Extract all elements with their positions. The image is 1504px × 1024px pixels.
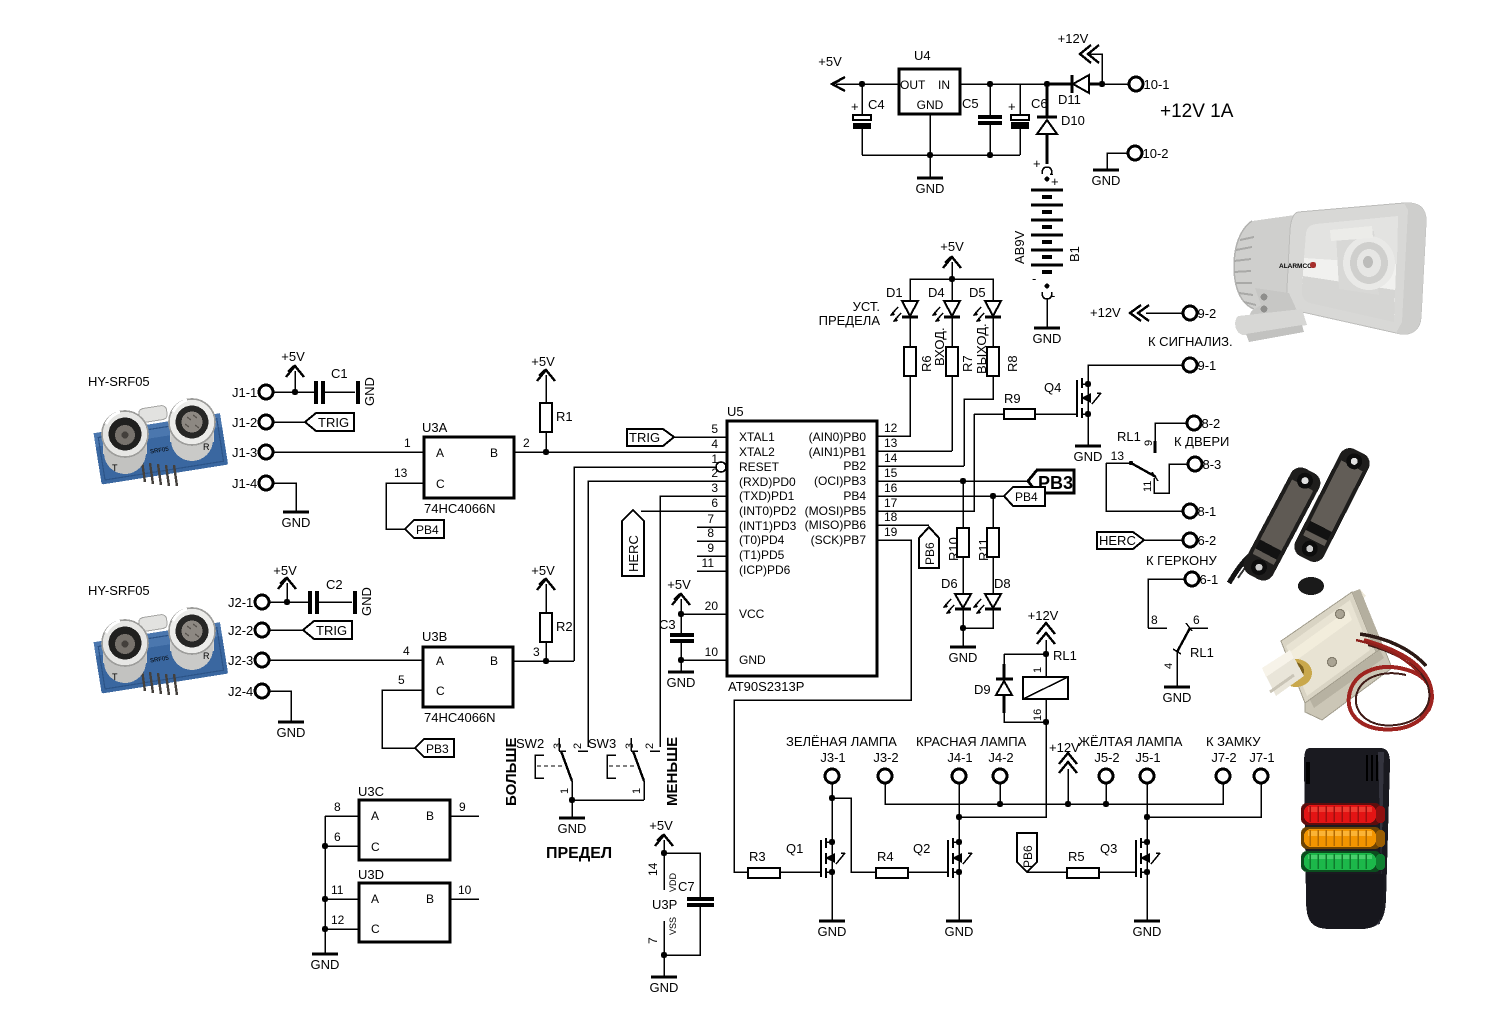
svg-text:(INT1)PD3: (INT1)PD3 bbox=[739, 519, 797, 533]
svg-text:2: 2 bbox=[523, 436, 530, 450]
svg-text:12: 12 bbox=[331, 913, 345, 927]
svg-text:R10: R10 bbox=[946, 537, 961, 561]
svg-text:-: - bbox=[1051, 288, 1055, 303]
svg-text:U3B: U3B bbox=[422, 629, 447, 644]
svg-text:R8: R8 bbox=[1005, 355, 1020, 372]
connector J1-3 bbox=[232, 445, 273, 460]
TRIG tag (J2-2) bbox=[303, 621, 352, 639]
+12V 1A label bbox=[1160, 101, 1234, 122]
label ЗЕЛЁНАЯ ЛАМПА bbox=[786, 734, 897, 749]
junction bbox=[1044, 81, 1050, 87]
diode D11 bbox=[1047, 75, 1102, 107]
svg-text:GND: GND bbox=[558, 821, 587, 836]
svg-text:(TXD)PD1: (TXD)PD1 bbox=[739, 489, 795, 503]
svg-text:RESET: RESET bbox=[739, 460, 780, 474]
svg-text:+5V: +5V bbox=[281, 349, 305, 364]
svg-text:GND: GND bbox=[916, 181, 945, 196]
svg-text:J5-2: J5-2 bbox=[1094, 750, 1119, 765]
svg-text:GND: GND bbox=[650, 980, 679, 995]
label К ЗАМКУ bbox=[1206, 734, 1261, 749]
analog switch U3B bbox=[422, 629, 513, 725]
svg-text:C7: C7 bbox=[678, 879, 695, 894]
HERC tag (U5 INT0) bbox=[622, 510, 727, 576]
svg-text:20: 20 bbox=[705, 599, 719, 613]
connector J2-3 bbox=[228, 653, 269, 668]
connector J3-1 bbox=[820, 750, 845, 783]
svg-text:AT90S2313P: AT90S2313P bbox=[728, 679, 804, 694]
svg-text:74HC4066N: 74HC4066N bbox=[424, 501, 496, 516]
svg-text:C6: C6 bbox=[1031, 96, 1048, 111]
svg-text:16: 16 bbox=[1032, 709, 1044, 721]
svg-text:7: 7 bbox=[707, 512, 714, 526]
svg-text:GND: GND bbox=[1074, 449, 1103, 464]
resistor R11 bbox=[976, 496, 999, 594]
resistor R10 bbox=[946, 481, 969, 594]
wire RL1 pin16 to J4-1 net bbox=[959, 722, 1046, 817]
svg-text:2: 2 bbox=[644, 743, 656, 749]
svg-text:+12V: +12V bbox=[1049, 740, 1080, 755]
ultrasonic sensor photo HY-SRF05 (top) bbox=[88, 374, 228, 486]
svg-text:ЗЕЛЁНАЯ ЛАМПА: ЗЕЛЁНАЯ ЛАМПА bbox=[786, 734, 897, 749]
+12V power arrow (RL1 coil) bbox=[1028, 608, 1077, 677]
label К ГЕРКОНУ bbox=[1146, 553, 1217, 568]
svg-text:B1: B1 bbox=[1067, 246, 1082, 262]
PB3 tag (U3B) bbox=[415, 739, 454, 757]
svg-text:+12V: +12V bbox=[1058, 31, 1089, 46]
connector J5-1 bbox=[1135, 750, 1160, 783]
svg-text:A: A bbox=[371, 892, 379, 906]
svg-text:1: 1 bbox=[404, 436, 411, 450]
svg-text:(AIN0)PB0: (AIN0)PB0 bbox=[809, 430, 867, 444]
pin stubs U5 left bbox=[697, 527, 727, 571]
svg-text:C: C bbox=[436, 477, 445, 491]
wire U3C pin8 bbox=[325, 800, 359, 816]
svg-text:1: 1 bbox=[559, 788, 571, 794]
label ВХОД. (rotated) bbox=[932, 327, 947, 366]
ground (U3C/U3D) bbox=[311, 954, 340, 972]
svg-text:GND: GND bbox=[277, 725, 306, 740]
label ВЫХОД. (rotated) bbox=[974, 323, 989, 374]
svg-text:J1-3: J1-3 bbox=[232, 445, 257, 460]
svg-text:D1: D1 bbox=[886, 285, 903, 300]
svg-text:GND: GND bbox=[311, 957, 340, 972]
wire pin16 / PB4 net bbox=[877, 493, 1004, 499]
svg-text:14: 14 bbox=[646, 862, 660, 876]
wire U3B pin5 bbox=[382, 673, 423, 748]
svg-text:+: + bbox=[1008, 99, 1016, 114]
svg-text:PB6: PB6 bbox=[923, 542, 937, 565]
svg-text:+12V: +12V bbox=[1090, 305, 1121, 320]
wire VCC pin20 bbox=[678, 611, 727, 617]
svg-text:AB9V: AB9V bbox=[1012, 230, 1027, 264]
svg-text:J2-2: J2-2 bbox=[228, 623, 253, 638]
svg-text:ПРЕДЕЛА: ПРЕДЕЛА bbox=[819, 313, 881, 328]
svg-text:PB6: PB6 bbox=[1021, 845, 1035, 868]
capacitor C2 bbox=[308, 577, 352, 614]
svg-text:+: + bbox=[1033, 156, 1041, 171]
+5V power arrow (R1) bbox=[531, 354, 555, 403]
wire U3C pin9 bbox=[450, 800, 479, 816]
wire U3A pin13 bbox=[386, 466, 424, 529]
LED D4 bbox=[928, 285, 960, 347]
capacitor C7 bbox=[664, 853, 714, 955]
svg-text:J5-1: J5-1 bbox=[1135, 750, 1160, 765]
svg-text:8: 8 bbox=[334, 800, 341, 814]
svg-text:6: 6 bbox=[334, 830, 341, 844]
wire U4 OUT bbox=[862, 83, 899, 85]
voltage regulator U4 bbox=[899, 48, 960, 114]
svg-text:13: 13 bbox=[1111, 449, 1125, 463]
capacitor C5 bbox=[962, 81, 1002, 158]
svg-text:+5V: +5V bbox=[531, 563, 555, 578]
svg-text:D11: D11 bbox=[1058, 92, 1081, 107]
svg-text:К ЗАМКУ: К ЗАМКУ bbox=[1206, 734, 1261, 749]
switch SW2 bbox=[516, 736, 588, 800]
resistor R8 bbox=[964, 347, 1020, 466]
HERC tag (right) bbox=[1097, 532, 1183, 549]
svg-text:6: 6 bbox=[711, 496, 718, 510]
svg-text:XTAL1: XTAL1 bbox=[739, 430, 775, 444]
svg-text:U3P: U3P bbox=[652, 897, 677, 912]
svg-text:10: 10 bbox=[705, 645, 719, 659]
wire to J10-1 bbox=[1102, 83, 1129, 85]
svg-text:+: + bbox=[1051, 174, 1059, 189]
resistor R5 bbox=[1067, 849, 1136, 878]
svg-text:PB4: PB4 bbox=[1015, 490, 1038, 504]
connector J2-4 bbox=[228, 684, 291, 722]
wire SW2/SW3 common bbox=[569, 797, 644, 818]
photo: magnetic door sensors bbox=[1229, 444, 1373, 595]
wire pin14 to R8 bbox=[877, 465, 964, 467]
PB6 tag (pin18, vertical) bbox=[919, 527, 939, 568]
wire LED supply rail bbox=[910, 279, 993, 301]
transistor Q3 bbox=[1100, 838, 1160, 921]
wire pin15 / PB3 net bbox=[877, 478, 1028, 484]
connector J6-1 bbox=[1148, 572, 1218, 628]
svg-text:PB2: PB2 bbox=[843, 459, 866, 473]
LED D1 bbox=[886, 285, 918, 347]
label КРАСНАЯ ЛАМПА bbox=[916, 734, 1027, 749]
resistor R1 bbox=[540, 403, 573, 452]
diode D10 bbox=[1037, 84, 1085, 152]
svg-text:J3-2: J3-2 bbox=[873, 750, 898, 765]
svg-text:(RXD)PD0: (RXD)PD0 bbox=[739, 475, 796, 489]
wire J2-3 to U3B pin4 bbox=[269, 644, 423, 660]
ground (U3P) bbox=[650, 955, 679, 995]
svg-text:5: 5 bbox=[711, 422, 718, 436]
svg-text:GND: GND bbox=[282, 515, 311, 530]
svg-text:J1-2: J1-2 bbox=[232, 415, 257, 430]
svg-text:R: R bbox=[203, 442, 210, 452]
resistor R6 bbox=[904, 347, 934, 436]
svg-text:C3: C3 bbox=[659, 617, 676, 632]
svg-text:+5V: +5V bbox=[667, 577, 691, 592]
photo: solenoid lock bbox=[1262, 589, 1432, 729]
wire RXD (pin2) to SW2 bbox=[588, 481, 727, 747]
connector J9-1 bbox=[1183, 358, 1216, 373]
svg-text:GND: GND bbox=[949, 650, 978, 665]
+5V power arrow (U3P) bbox=[649, 818, 673, 890]
svg-text:19: 19 bbox=[884, 525, 898, 539]
wire U3D pin12 bbox=[322, 913, 359, 932]
svg-text:R7: R7 bbox=[960, 355, 975, 372]
junction bbox=[1099, 81, 1105, 87]
LED D5 bbox=[969, 285, 1001, 347]
+12V power arrow (top) bbox=[1058, 31, 1102, 84]
ground (Q4) bbox=[1074, 446, 1103, 464]
connector J3-2 bbox=[873, 750, 898, 783]
wire pin12 to R6 bbox=[877, 376, 910, 436]
wire U3A output pin2 bbox=[514, 436, 727, 455]
svg-text:12: 12 bbox=[884, 421, 898, 435]
ground (Q1) bbox=[818, 921, 847, 939]
svg-text:R: R bbox=[203, 651, 210, 661]
ground (J1-4) bbox=[282, 512, 311, 530]
svg-text:C: C bbox=[371, 840, 380, 854]
svg-text:J2-3: J2-3 bbox=[228, 653, 253, 668]
svg-text:18: 18 bbox=[884, 510, 898, 524]
svg-text:OUT: OUT bbox=[900, 78, 926, 92]
svg-text:GND: GND bbox=[739, 653, 766, 667]
svg-text:(OCI)PB3: (OCI)PB3 bbox=[814, 474, 866, 488]
wire TXD (pin3) to SW3 bbox=[660, 496, 727, 747]
wire U4 IN bbox=[960, 83, 1047, 85]
svg-text:D9: D9 bbox=[974, 682, 991, 697]
+5V power arrow (J1-1) bbox=[281, 349, 305, 395]
svg-text:(AIN1)PB1: (AIN1)PB1 bbox=[809, 445, 867, 459]
svg-text:D5: D5 bbox=[969, 285, 986, 300]
svg-text:3: 3 bbox=[552, 743, 564, 749]
svg-text:4: 4 bbox=[403, 644, 410, 658]
ground (SW2/SW3) bbox=[558, 818, 587, 836]
+12V lamp rail wire bbox=[885, 783, 1223, 807]
ground (Q2) bbox=[945, 921, 974, 939]
svg-text:B: B bbox=[426, 892, 434, 906]
svg-text:17: 17 bbox=[884, 496, 898, 510]
ground (C1, rotated) bbox=[356, 377, 377, 406]
label МЕНЬШЕ (vertical) bbox=[664, 737, 681, 806]
svg-text:IN: IN bbox=[938, 78, 950, 92]
junction bbox=[927, 152, 933, 158]
wire U3D pin10 bbox=[450, 883, 479, 899]
svg-text:Q3: Q3 bbox=[1100, 841, 1117, 856]
svg-text:SW2: SW2 bbox=[516, 736, 544, 751]
svg-text:14: 14 bbox=[884, 451, 898, 465]
wire U3C/U3D ground bus bbox=[324, 816, 326, 954]
svg-text:D4: D4 bbox=[928, 285, 945, 300]
ground (U4) bbox=[916, 178, 945, 196]
resistor R7 bbox=[946, 347, 975, 451]
svg-text:7: 7 bbox=[646, 937, 660, 944]
svg-text:U3A: U3A bbox=[422, 420, 448, 435]
wire pin19 route to R3 bbox=[734, 540, 911, 872]
svg-text:B: B bbox=[490, 446, 498, 460]
svg-text:УСТ.: УСТ. bbox=[853, 299, 880, 314]
resistor R3 bbox=[748, 849, 821, 878]
svg-text:GND: GND bbox=[1163, 690, 1192, 705]
svg-text:+12V: +12V bbox=[1028, 608, 1059, 623]
svg-text:C: C bbox=[371, 922, 380, 936]
svg-text:U5: U5 bbox=[727, 404, 744, 419]
battery B1 bbox=[1012, 152, 1082, 328]
svg-text:-: - bbox=[1032, 271, 1036, 286]
svg-text:PB3: PB3 bbox=[426, 742, 449, 756]
+12V power arrow (lamp rail) bbox=[1049, 740, 1080, 804]
svg-text:(SCK)PB7: (SCK)PB7 bbox=[811, 533, 867, 547]
svg-text:9: 9 bbox=[707, 541, 714, 555]
connector J5-2 bbox=[1094, 750, 1119, 783]
svg-text:T: T bbox=[112, 463, 118, 473]
svg-text:ВХОД.: ВХОД. bbox=[932, 327, 947, 366]
svg-text:1: 1 bbox=[1032, 667, 1044, 673]
svg-text:PB4: PB4 bbox=[843, 489, 866, 503]
ground rail wire bbox=[862, 154, 1020, 156]
connector J7-1 bbox=[1249, 750, 1274, 783]
wire J1-3 to U3A pin1 bbox=[273, 436, 424, 452]
svg-text:J4-1: J4-1 bbox=[947, 750, 972, 765]
svg-text:+12V 1A: +12V 1A bbox=[1160, 101, 1234, 122]
svg-text:11: 11 bbox=[702, 556, 715, 570]
svg-text:RL1: RL1 bbox=[1117, 429, 1141, 444]
svg-text:ЖЁЛТАЯ ЛАМПА: ЖЁЛТАЯ ЛАМПА bbox=[1078, 734, 1183, 749]
svg-text:J7-2: J7-2 bbox=[1211, 750, 1236, 765]
capacitor C6 bbox=[1008, 84, 1048, 155]
PB4 tag bbox=[1004, 487, 1045, 506]
svg-text:D8: D8 bbox=[994, 576, 1011, 591]
connector J1-1 bbox=[232, 385, 316, 400]
relay contact RL1 (door) bbox=[1106, 429, 1188, 493]
svg-text:D6: D6 bbox=[941, 576, 958, 591]
svg-text:GND: GND bbox=[1092, 173, 1121, 188]
svg-text:11: 11 bbox=[1142, 481, 1154, 492]
wire J3-1 to Q1 drain bbox=[829, 783, 877, 872]
svg-text:VDD: VDD bbox=[668, 872, 678, 892]
svg-text:B: B bbox=[490, 654, 498, 668]
svg-text:МЕНЬШЕ: МЕНЬШЕ bbox=[664, 737, 681, 806]
svg-text:3: 3 bbox=[533, 645, 540, 659]
svg-text:+5V: +5V bbox=[649, 818, 673, 833]
svg-text:J3-1: J3-1 bbox=[820, 750, 845, 765]
connector J10-1 bbox=[1129, 77, 1170, 92]
wire RESET (pin1) bbox=[574, 467, 716, 661]
svg-text:R2: R2 bbox=[556, 619, 573, 634]
wire J4-1 to Q2 drain / RL1 bbox=[956, 783, 962, 842]
ground (C2, rotated) bbox=[353, 587, 374, 616]
wire Q4 drain to J9-1 bbox=[1088, 365, 1183, 384]
connector J7-2 bbox=[1211, 750, 1236, 783]
svg-text:PB4: PB4 bbox=[416, 523, 439, 537]
PB3 tag (big) bbox=[1028, 470, 1074, 493]
resistor R4 bbox=[851, 849, 948, 878]
svg-text:Q1: Q1 bbox=[786, 841, 803, 856]
svg-text:J7-1: J7-1 bbox=[1249, 750, 1274, 765]
svg-text:VCC: VCC bbox=[739, 607, 765, 621]
svg-text:GND: GND bbox=[818, 924, 847, 939]
svg-text:J2-1: J2-1 bbox=[228, 595, 253, 610]
svg-text:GND: GND bbox=[359, 587, 374, 616]
svg-text:11: 11 bbox=[331, 883, 344, 897]
svg-text:9: 9 bbox=[1143, 440, 1155, 446]
svg-text:RL1: RL1 bbox=[1053, 648, 1077, 663]
wire pin13 to R7 bbox=[877, 450, 952, 452]
wire Q4 source to ground bbox=[1087, 414, 1089, 446]
connector J2-1 bbox=[228, 595, 309, 610]
svg-text:ALARMCO: ALARMCO bbox=[1279, 263, 1312, 270]
svg-text:Q2: Q2 bbox=[913, 841, 930, 856]
svg-text:GND: GND bbox=[1133, 924, 1162, 939]
photo: LED signal tower bbox=[1301, 748, 1390, 929]
connector J4-1 bbox=[947, 750, 972, 783]
svg-text:C2: C2 bbox=[326, 577, 343, 592]
svg-text:+5V: +5V bbox=[818, 54, 842, 69]
connector J8-1 bbox=[1183, 504, 1216, 519]
svg-text:6: 6 bbox=[1193, 613, 1200, 627]
wire U3C pin6 bbox=[322, 830, 359, 849]
switch SW3 bbox=[588, 736, 660, 800]
svg-text:J1-4: J1-4 bbox=[232, 476, 257, 491]
capacitor C4 bbox=[851, 84, 885, 155]
+5V power arrow (C3) bbox=[667, 577, 691, 614]
transistor Q1 bbox=[786, 838, 845, 921]
svg-text:HERC: HERC bbox=[1099, 533, 1136, 548]
ground (C3) bbox=[667, 672, 696, 690]
svg-text:TRIG: TRIG bbox=[629, 430, 660, 445]
svg-text:Q4: Q4 bbox=[1044, 380, 1061, 395]
svg-text:R11: R11 bbox=[976, 538, 991, 561]
svg-text:5: 5 bbox=[398, 673, 405, 687]
label К СИГНАЛИЗ. bbox=[1148, 334, 1233, 349]
svg-text:R9: R9 bbox=[1004, 391, 1021, 406]
wire RL1 pin13 to J8-1 bbox=[1106, 463, 1183, 511]
transistor Q4 bbox=[1044, 378, 1101, 418]
svg-text:4: 4 bbox=[711, 437, 718, 451]
svg-text:T: T bbox=[112, 672, 118, 682]
svg-text:VSS: VSS bbox=[668, 917, 678, 935]
svg-text:(T0)PD4: (T0)PD4 bbox=[739, 533, 785, 547]
wire pin18 to PB6 tag bbox=[877, 524, 929, 526]
svg-text:RL1: RL1 bbox=[1190, 645, 1214, 660]
ground (D6/D8) bbox=[949, 647, 978, 665]
junction bbox=[960, 625, 966, 631]
svg-text:10: 10 bbox=[458, 883, 472, 897]
svg-text:74HC4066N: 74HC4066N bbox=[424, 710, 496, 725]
svg-text:B: B bbox=[426, 809, 434, 823]
connector J4-2 bbox=[988, 750, 1013, 783]
svg-text:C5: C5 bbox=[962, 96, 979, 111]
connector J8-2 bbox=[1155, 416, 1220, 441]
connector J10-2 bbox=[1107, 146, 1169, 170]
svg-text:2: 2 bbox=[572, 743, 584, 749]
label УСТ. ПРЕДЕЛА bbox=[819, 299, 881, 328]
power pins U3P bbox=[646, 862, 678, 958]
wire U4 GND pin bbox=[929, 114, 931, 178]
svg-text:HY-SRF05: HY-SRF05 bbox=[88, 374, 150, 389]
svg-text:(MOSI)PB5: (MOSI)PB5 bbox=[805, 504, 867, 518]
wire U3B output pin3 bbox=[513, 645, 574, 664]
wire GND pin10 bbox=[678, 657, 727, 663]
LED D6 bbox=[941, 576, 971, 647]
diode D9 bbox=[974, 654, 1046, 722]
+5V power arrow (U4 output) bbox=[818, 54, 862, 91]
svg-text:К ГЕРКОНУ: К ГЕРКОНУ bbox=[1146, 553, 1217, 568]
wire J5-1 to Q3 drain / J7-1 bbox=[1144, 783, 1261, 842]
svg-text:(INT0)PD2: (INT0)PD2 bbox=[739, 504, 797, 518]
svg-text:R3: R3 bbox=[749, 849, 766, 864]
TRIG tag (U5 XTAL1) bbox=[627, 429, 727, 446]
+12V power arrow (J9-2) bbox=[1090, 305, 1183, 321]
resistor R2 bbox=[540, 613, 573, 661]
relay contact RL1 (reed) bbox=[1148, 613, 1214, 687]
